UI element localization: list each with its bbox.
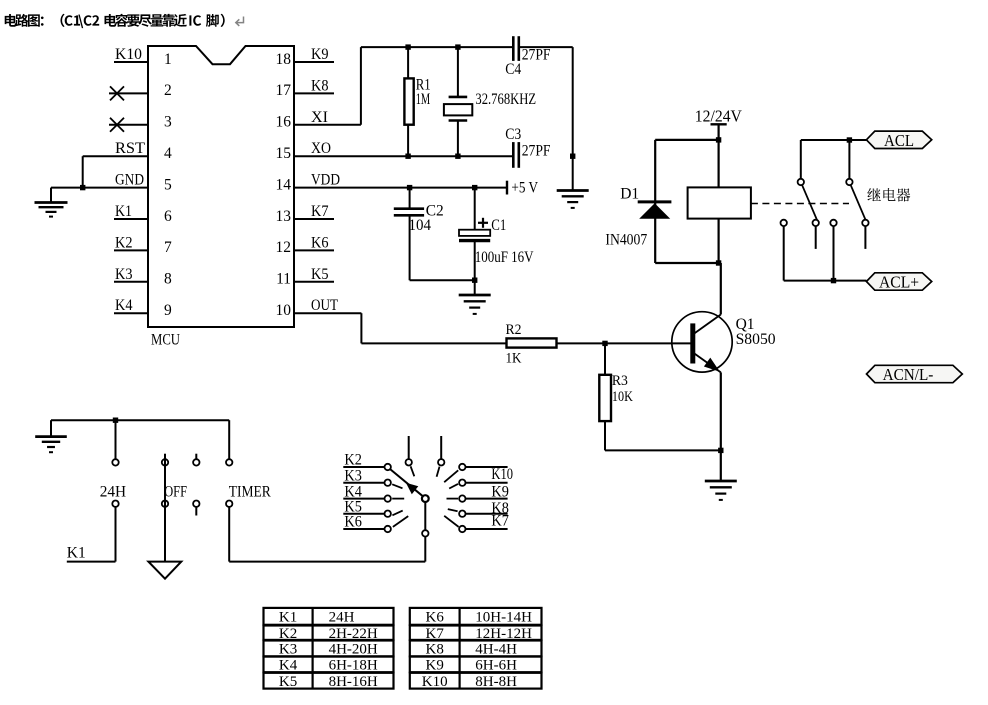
svg-text:K1: K1 [279, 610, 297, 626]
svg-text:10K: 10K [612, 389, 633, 405]
svg-text:K2: K2 [344, 452, 362, 469]
svg-text:K1: K1 [67, 545, 86, 562]
svg-text:K8: K8 [426, 642, 444, 658]
svg-text:6H-18H: 6H-18H [329, 658, 378, 674]
svg-text:MCU: MCU [151, 332, 180, 349]
svg-text:K5: K5 [311, 266, 329, 283]
svg-text:D1: D1 [620, 185, 639, 202]
svg-text:7: 7 [164, 239, 172, 256]
svg-text:18: 18 [276, 51, 292, 68]
svg-text:K8: K8 [311, 77, 329, 94]
svg-text:R2: R2 [506, 322, 522, 338]
svg-text:K9: K9 [426, 658, 444, 674]
svg-text:13: 13 [276, 208, 292, 225]
svg-text:XI: XI [311, 109, 328, 126]
svg-text:K3: K3 [279, 642, 297, 658]
svg-text:4H-4H: 4H-4H [475, 642, 517, 658]
svg-text:3: 3 [164, 114, 172, 131]
svg-text:K6: K6 [344, 514, 362, 531]
svg-text:K10: K10 [115, 46, 142, 63]
svg-text:32.768KHZ: 32.768KHZ [475, 91, 536, 108]
svg-text:TIMER: TIMER [229, 484, 272, 501]
svg-text:24H: 24H [329, 610, 355, 626]
svg-text:RST: RST [115, 140, 146, 157]
svg-text:K1: K1 [115, 203, 132, 220]
svg-text:8: 8 [164, 271, 172, 288]
svg-text:14: 14 [276, 176, 292, 193]
svg-text:IN4007: IN4007 [605, 231, 647, 248]
svg-text:6H-6H: 6H-6H [475, 658, 517, 674]
svg-text:ACL+: ACL+ [879, 273, 919, 292]
svg-text:C3: C3 [505, 126, 521, 143]
svg-text:2: 2 [164, 82, 172, 99]
svg-text:27PF: 27PF [522, 47, 551, 64]
svg-text:OUT: OUT [311, 297, 338, 314]
svg-text:K9: K9 [311, 46, 329, 63]
svg-text:K7: K7 [491, 513, 509, 530]
svg-text:15: 15 [276, 145, 292, 162]
svg-text:8H-16H: 8H-16H [329, 674, 378, 690]
svg-text:K4: K4 [115, 297, 133, 314]
svg-text:C4: C4 [505, 61, 521, 78]
svg-text:K3: K3 [115, 266, 133, 283]
svg-text:12: 12 [276, 239, 292, 256]
svg-text:8H-8H: 8H-8H [475, 674, 517, 690]
svg-text:10: 10 [276, 302, 292, 319]
svg-text:4: 4 [164, 145, 172, 162]
svg-text:K5: K5 [279, 674, 297, 690]
svg-text:K9: K9 [491, 484, 509, 501]
svg-text:100uF 16V: 100uF 16V [475, 249, 535, 266]
svg-text:S8050: S8050 [736, 331, 776, 348]
svg-text:10H-14H: 10H-14H [475, 610, 532, 626]
svg-text:9: 9 [164, 302, 172, 319]
svg-text:K7: K7 [311, 203, 329, 220]
svg-text:5: 5 [164, 176, 172, 193]
svg-text:4H-20H: 4H-20H [329, 642, 378, 658]
svg-text:17: 17 [276, 82, 292, 99]
svg-text:ACL: ACL [884, 131, 914, 150]
svg-text:R3: R3 [612, 373, 628, 389]
svg-text:K2: K2 [115, 234, 133, 251]
svg-text:OFF: OFF [164, 484, 187, 501]
svg-text:K3: K3 [344, 467, 362, 484]
svg-text:C1: C1 [491, 217, 506, 234]
svg-text:1K: 1K [506, 351, 522, 367]
svg-text:12/24V: 12/24V [695, 107, 743, 126]
svg-text:104: 104 [409, 217, 432, 234]
svg-text:XO: XO [311, 140, 331, 157]
svg-text:1: 1 [164, 51, 172, 68]
svg-text:K10: K10 [491, 466, 513, 483]
svg-text:16: 16 [276, 114, 292, 131]
svg-text:K4: K4 [279, 658, 298, 674]
svg-text:VDD: VDD [311, 172, 340, 189]
svg-text:11: 11 [276, 271, 291, 288]
svg-text:1M: 1M [416, 91, 431, 108]
svg-text:27PF: 27PF [522, 143, 551, 160]
svg-text:K6: K6 [311, 234, 329, 251]
svg-text:K10: K10 [422, 674, 448, 690]
svg-text:K6: K6 [426, 610, 445, 626]
svg-text:6: 6 [164, 208, 172, 225]
svg-text:ACN/L-: ACN/L- [883, 365, 934, 384]
svg-text:+5 V: +5 V [511, 179, 538, 196]
svg-text:24H: 24H [100, 484, 126, 501]
svg-text:GND: GND [115, 172, 144, 189]
